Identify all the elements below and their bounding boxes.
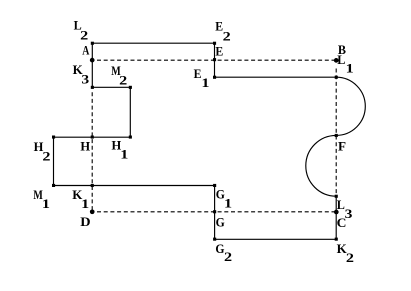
svg-text:2: 2 xyxy=(223,29,231,43)
svg-text:2: 2 xyxy=(80,29,88,43)
svg-text:1: 1 xyxy=(224,197,232,211)
svg-text:H: H xyxy=(80,140,90,154)
svg-text:E: E xyxy=(194,67,202,81)
svg-text:2: 2 xyxy=(42,149,50,163)
svg-text:2: 2 xyxy=(346,251,354,265)
svg-text:D: D xyxy=(80,215,90,229)
svg-text:2: 2 xyxy=(119,74,127,88)
svg-text:1: 1 xyxy=(346,62,354,76)
svg-text:F: F xyxy=(338,139,346,153)
svg-text:1: 1 xyxy=(42,197,50,211)
svg-text:1: 1 xyxy=(81,197,89,211)
svg-text:A: A xyxy=(82,43,89,57)
svg-text:1: 1 xyxy=(201,76,209,90)
svg-text:2: 2 xyxy=(224,250,232,264)
svg-text:3: 3 xyxy=(81,72,89,86)
svg-text:G: G xyxy=(216,215,225,229)
svg-text:E: E xyxy=(215,45,223,59)
svg-text:C: C xyxy=(337,216,347,230)
svg-text:1: 1 xyxy=(120,148,128,162)
svg-text:L: L xyxy=(337,53,345,67)
